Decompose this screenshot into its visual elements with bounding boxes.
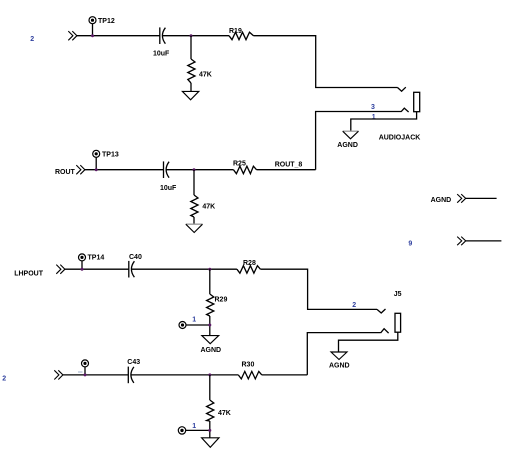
wire (LHPOUT to C40) [65, 268, 129, 270]
svg-text:TP12: TP12 [98, 18, 115, 25]
svg-text:AGND: AGND [431, 197, 452, 204]
junction (row 1 node to 47K) [190, 34, 193, 37]
off-page connector (row 1 input) [68, 31, 77, 40]
wire (ROUT to capacitor) [85, 169, 164, 171]
wire (R28 to J5 tip) [260, 269, 377, 309]
svg-text:2: 2 [352, 302, 356, 309]
resistor R30 [238, 371, 261, 379]
junction (row 3 node to R29) [208, 268, 211, 271]
svg-text:1: 1 [192, 316, 196, 323]
svg-text:AGND: AGND [337, 142, 358, 149]
resistor R28 [237, 266, 261, 274]
svg-text:47K: 47K [199, 71, 212, 78]
off-page connector (ROUT input) [76, 165, 85, 174]
resistor R25 [233, 166, 256, 174]
svg-text:AGND: AGND [329, 363, 350, 370]
junction (TP13 on ROUT wire) [95, 168, 98, 171]
pin terminal 1 (R29 bottom) [179, 322, 210, 329]
svg-text:ROUT: ROUT [55, 169, 76, 176]
svg-text:47K: 47K [218, 410, 231, 417]
svg-text:10uF: 10uF [153, 50, 170, 57]
svg-text:TP13: TP13 [102, 151, 119, 158]
svg-text:ROUT_8: ROUT_8 [275, 162, 303, 169]
wire (J5 ring to row 4 node) [307, 333, 380, 375]
junction (R29 / pin 1) [208, 324, 211, 327]
audio jack body [414, 92, 420, 111]
wire (R30 to J5 ring wire) [262, 374, 308, 376]
capacitor C40 [129, 261, 135, 278]
svg-text:R30: R30 [242, 362, 255, 369]
wire (row 1 input to capacitor) [77, 35, 160, 37]
ground (row 1) [182, 91, 198, 99]
faint mark (row 4 test point label) [78, 371, 83, 373]
capacitor 10uF (row 2) [164, 161, 170, 178]
off-page connector (pin 9 right) [457, 237, 466, 246]
test point TP12 [89, 17, 96, 36]
test point TP14 [79, 254, 86, 269]
svg-text:R25: R25 [233, 161, 246, 168]
svg-text:10uF: 10uF [160, 185, 177, 192]
wire (pin 9 connector) [466, 240, 502, 242]
svg-text:2: 2 [30, 36, 34, 43]
junction (row 2 node to 47K) [193, 168, 196, 171]
pin terminal 1 (row 4) [178, 427, 210, 434]
capacitor 10uF (row 1) [160, 27, 166, 44]
jack ring contact (audio jack) [401, 108, 409, 112]
resistor 47K (row 1) [188, 36, 195, 92]
svg-text:1: 1 [372, 114, 376, 121]
svg-text:2: 2 [2, 376, 6, 383]
ground (row 3) [202, 336, 219, 344]
wire (audio jack ring to ROUT_8 node) [316, 112, 401, 170]
wire (R25 to ROUT_8 node) [257, 169, 316, 171]
capacitor C43 [128, 367, 134, 384]
resistor 47K (row 4) [207, 375, 214, 438]
svg-text:AUDIOJACK: AUDIOJACK [379, 135, 421, 142]
svg-text:J5: J5 [394, 291, 402, 298]
svg-text:LHPOUT: LHPOUT [14, 270, 44, 277]
junction (row 4 node to 47K) [208, 373, 211, 376]
resistor R29 [207, 269, 214, 335]
svg-text:1: 1 [192, 423, 196, 430]
off-page connector (LHPOUT input) [56, 265, 65, 274]
jack J5 body [395, 313, 401, 332]
resistor R19 [229, 32, 254, 40]
wire (AGND connector) [466, 197, 497, 199]
wire (capacitor to R19) [162, 35, 229, 37]
svg-text:3: 3 [371, 104, 375, 111]
wire (row 4 input to C43) [63, 374, 128, 376]
junction (test point on row 4 wire) [84, 373, 87, 376]
svg-text:AGND: AGND [201, 347, 222, 354]
test point (row 4) [82, 360, 89, 375]
svg-text:47K: 47K [202, 204, 215, 211]
jack tip contact (J5) [377, 309, 386, 313]
wire (C43 to R30) [131, 374, 238, 376]
wire (C40 to R28) [131, 268, 237, 270]
off-page connector (row 4 input) [54, 370, 63, 379]
svg-text:C43: C43 [127, 359, 140, 366]
svg-text:R29: R29 [215, 296, 228, 303]
svg-text:TP14: TP14 [88, 255, 105, 262]
ground AGND (row 2) [186, 224, 203, 232]
junction (TP12 on row 1 wire) [91, 34, 94, 37]
ground AGND (audio jack) [343, 131, 359, 139]
svg-text:C40: C40 [129, 254, 142, 261]
wire (J5 sleeve to AGND) [339, 332, 398, 352]
test point TP13 [93, 150, 100, 169]
wire (audio jack sleeve to AGND) [351, 112, 417, 132]
jack ring contact (J5) [381, 329, 389, 333]
junction (TP14 on LHPOUT wire) [81, 268, 84, 271]
wire (capacitor to R25) [166, 169, 233, 171]
svg-text:R28: R28 [243, 260, 256, 267]
ground AGND (J5) [331, 352, 347, 360]
ground (row 4) [202, 438, 219, 448]
wire (R19 to audio jack tip) [254, 36, 398, 88]
junction (47K / pin 1 row 4) [208, 429, 211, 432]
jack tip contact (audio jack) [398, 87, 406, 91]
resistor 47K (row 2) [191, 170, 198, 225]
svg-text:9: 9 [408, 240, 412, 247]
svg-text:R19: R19 [229, 28, 242, 35]
off-page connector (AGND right) [457, 194, 466, 203]
